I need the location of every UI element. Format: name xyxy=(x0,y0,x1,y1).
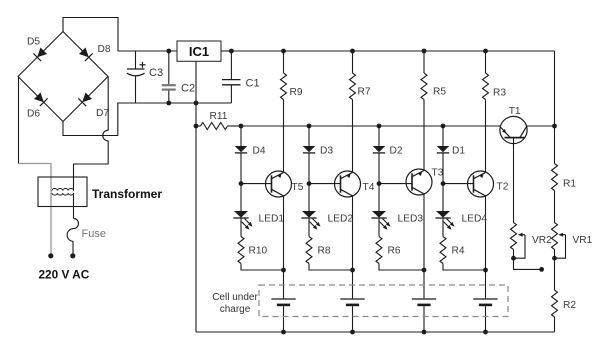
wire VR1 to R2 xyxy=(554,258,556,290)
wire transformer primary (gray) xyxy=(19,164,51,256)
base rail xyxy=(241,125,500,127)
battery cell 4 xyxy=(473,298,497,300)
battery cell 1 xyxy=(271,298,295,300)
wire collector column T3 xyxy=(423,100,425,171)
svg-text:T3: T3 xyxy=(432,168,444,179)
svg-text:VR1: VR1 xyxy=(573,235,593,246)
LED LED3 xyxy=(372,211,386,218)
wire R8 to emitter column xyxy=(309,264,353,271)
wire fuse to terminal xyxy=(72,241,74,255)
wire LED to R8 xyxy=(308,218,310,237)
wire base column upper xyxy=(308,126,310,146)
fuse xyxy=(67,218,78,241)
node right rail T1 xyxy=(552,124,557,129)
node base T4 xyxy=(307,181,312,186)
svg-text:220 V AC: 220 V AC xyxy=(39,268,90,282)
resistor R4 xyxy=(440,237,446,264)
svg-text:D1: D1 xyxy=(452,146,465,157)
bottom rail xyxy=(196,331,555,333)
transistor T4 xyxy=(335,171,361,197)
node bottom rail stage 4 xyxy=(483,330,488,335)
LED LED4 xyxy=(436,211,450,218)
svg-text:Transformer: Transformer xyxy=(92,187,162,201)
wire diode to base node xyxy=(308,153,310,183)
top supply rail xyxy=(231,50,554,52)
svg-text:R2: R2 xyxy=(563,300,576,311)
wire collector column T5 xyxy=(283,100,285,173)
diode D6 xyxy=(34,93,44,103)
wire base node to LED xyxy=(378,184,380,211)
svg-text:R7: R7 xyxy=(358,87,371,98)
svg-text:D2: D2 xyxy=(390,146,403,157)
svg-text:T2: T2 xyxy=(497,182,509,193)
svg-text:Cell under: Cell under xyxy=(212,292,258,303)
svg-text:Fuse: Fuse xyxy=(82,228,106,240)
node tap terminal xyxy=(539,267,544,272)
resistor R1 xyxy=(552,164,558,191)
svg-text:R4: R4 xyxy=(452,246,465,257)
node VR1 bottom xyxy=(552,256,557,261)
diode bridge outline xyxy=(18,32,108,122)
node R11 right xyxy=(239,124,244,129)
wire LED to R6 xyxy=(378,218,380,237)
wire emitter column T5 xyxy=(283,196,285,270)
resistor R11 xyxy=(201,123,228,130)
wire base column upper xyxy=(442,126,444,146)
wire IC1 ground pin xyxy=(195,61,197,103)
node emitter junction stage 4 xyxy=(483,268,488,273)
wire R1 to VR1 xyxy=(554,191,556,223)
dashed box cell under charge xyxy=(259,285,508,317)
svg-text:R1: R1 xyxy=(563,179,576,190)
resistor R8 xyxy=(306,237,312,264)
svg-text:D8: D8 xyxy=(98,44,111,55)
right rail down from top xyxy=(554,51,556,126)
wire diode to base node xyxy=(240,153,242,183)
wire base column upper xyxy=(378,126,380,146)
node base rail stage 3 xyxy=(377,124,382,129)
node IC1 pin ground xyxy=(194,101,199,106)
svg-text:C2: C2 xyxy=(181,83,195,95)
svg-text:R10: R10 xyxy=(249,246,268,257)
transistor T2 xyxy=(468,171,494,197)
wire R6 to emitter column xyxy=(379,264,424,271)
node top rail stage 1 xyxy=(281,49,286,54)
node C2 top xyxy=(166,49,171,54)
resistor R5 xyxy=(421,73,427,99)
wire bridge bottom vertex to filter ground xyxy=(63,103,231,136)
node C1 top xyxy=(229,49,234,54)
svg-text:T4: T4 xyxy=(363,182,375,193)
wire T1 base down to VR2 xyxy=(513,138,515,223)
resistor R10 xyxy=(238,237,244,264)
terminal 220V right xyxy=(70,253,75,258)
wire LED to R10 xyxy=(240,218,242,237)
svg-text:D3: D3 xyxy=(320,146,333,157)
svg-text:charge: charge xyxy=(220,304,251,315)
node base T5 xyxy=(239,181,244,186)
wire into cell 2 xyxy=(352,270,354,298)
diode D5 xyxy=(37,48,47,58)
svg-text:VR2: VR2 xyxy=(532,235,552,246)
capacitor C3 (electrolytic) xyxy=(135,51,137,69)
svg-text:T5: T5 xyxy=(292,182,304,193)
wire into cell 3 xyxy=(423,270,425,298)
node emitter junction stage 3 xyxy=(422,268,427,273)
wire collector column T4 xyxy=(352,100,354,173)
resistor R2 xyxy=(552,290,558,317)
svg-text:LED2: LED2 xyxy=(328,214,354,225)
transformer winding bottom xyxy=(52,193,74,195)
node emitter junction stage 2 xyxy=(350,268,355,273)
svg-text:LED3: LED3 xyxy=(398,214,424,225)
wire base node to LED xyxy=(308,184,310,211)
wire right rail to R1 xyxy=(554,126,556,164)
svg-text:R5: R5 xyxy=(433,87,446,98)
node top rail stage 4 xyxy=(483,49,488,54)
svg-text:C3: C3 xyxy=(149,67,163,79)
svg-text:R11: R11 xyxy=(210,111,228,122)
wire hop over crossing xyxy=(74,77,109,191)
wire R4 to emitter column xyxy=(443,264,486,271)
node C2 bottom xyxy=(166,101,171,106)
svg-text:R9: R9 xyxy=(290,87,303,98)
terminal 220V left xyxy=(48,253,53,258)
wire IC pin node down to bottom rail xyxy=(195,103,197,332)
wire into cell 4 xyxy=(485,270,487,298)
diode D4 xyxy=(235,146,247,152)
battery cell 3 xyxy=(412,298,436,300)
transistor T3 xyxy=(406,169,432,195)
diode D8 xyxy=(79,48,89,58)
diode D1 xyxy=(437,146,449,152)
svg-text:R8: R8 xyxy=(318,246,331,257)
transformer box xyxy=(38,177,87,207)
wire R2 to bottom rail xyxy=(554,317,556,332)
svg-text:IC1: IC1 xyxy=(189,44,209,59)
wire emitter column T4 xyxy=(352,196,354,270)
wire bridge left vertex down xyxy=(18,77,20,164)
node base rail stage 2 xyxy=(307,124,312,129)
svg-text:D5: D5 xyxy=(27,37,40,48)
node bottom rail stage 2 xyxy=(350,330,355,335)
svg-text:R6: R6 xyxy=(388,246,401,257)
transformer winding top xyxy=(52,189,74,191)
node base T2 xyxy=(441,181,446,186)
svg-text:D6: D6 xyxy=(27,109,40,120)
svg-text:LED1: LED1 xyxy=(259,214,285,225)
node emitter junction stage 1 xyxy=(281,268,286,273)
svg-text:D4: D4 xyxy=(253,146,266,157)
wire transformer secondary to fuse xyxy=(73,193,75,219)
transistor T5 xyxy=(266,171,292,197)
diode D7 xyxy=(82,93,92,103)
LED LED2 xyxy=(302,211,316,218)
regulator IC1 box xyxy=(177,41,221,61)
resistor R9 xyxy=(281,73,287,99)
node bottom rail stage 1 xyxy=(281,330,286,335)
wire diode to base node xyxy=(442,153,444,183)
wire emitter column T2 xyxy=(485,196,487,270)
diode D3 xyxy=(303,146,315,152)
wire into cell 1 xyxy=(283,270,285,298)
svg-text:R3: R3 xyxy=(493,88,506,99)
resistor R6 xyxy=(376,237,382,264)
wire R10 to emitter column xyxy=(241,264,284,271)
node R11 left xyxy=(194,124,199,129)
wire emitter column T3 xyxy=(423,194,425,270)
node top rail stage 3 xyxy=(422,49,427,54)
LED LED1 xyxy=(234,211,248,218)
wire LED to R4 xyxy=(442,218,444,237)
svg-text:D7: D7 xyxy=(96,108,109,119)
wire T1 collector to right rail xyxy=(527,125,555,127)
resistor R7 xyxy=(350,73,356,99)
capacitor C1 xyxy=(230,51,232,79)
wire collector column T2 xyxy=(485,100,487,173)
battery cell 2 xyxy=(340,298,364,300)
node VR2 bottom xyxy=(511,256,516,261)
svg-text:LED4: LED4 xyxy=(462,214,488,225)
wire base column upper xyxy=(240,126,242,146)
wire IC1 output xyxy=(221,50,231,52)
resistor R3 xyxy=(483,73,489,99)
capacitor C2 xyxy=(168,51,170,84)
node base rail stage 4 xyxy=(441,124,446,129)
node top rail stage 2 xyxy=(350,49,355,54)
wire VR2 tap stub xyxy=(514,258,542,269)
svg-text:T1: T1 xyxy=(509,106,521,117)
transistor T1 xyxy=(500,116,527,143)
node base T3 xyxy=(377,181,382,186)
potentiometer VR1 xyxy=(552,223,558,250)
wire base node to LED xyxy=(240,184,242,211)
node bottom rail stage 3 xyxy=(422,330,427,335)
potentiometer VR2 xyxy=(511,223,517,250)
diode D2 xyxy=(373,146,385,152)
wire from bridge + output to regulator input xyxy=(63,18,177,52)
wire diode to base node xyxy=(378,153,380,183)
svg-text:C1: C1 xyxy=(246,78,260,90)
wire base node to LED xyxy=(442,184,444,211)
